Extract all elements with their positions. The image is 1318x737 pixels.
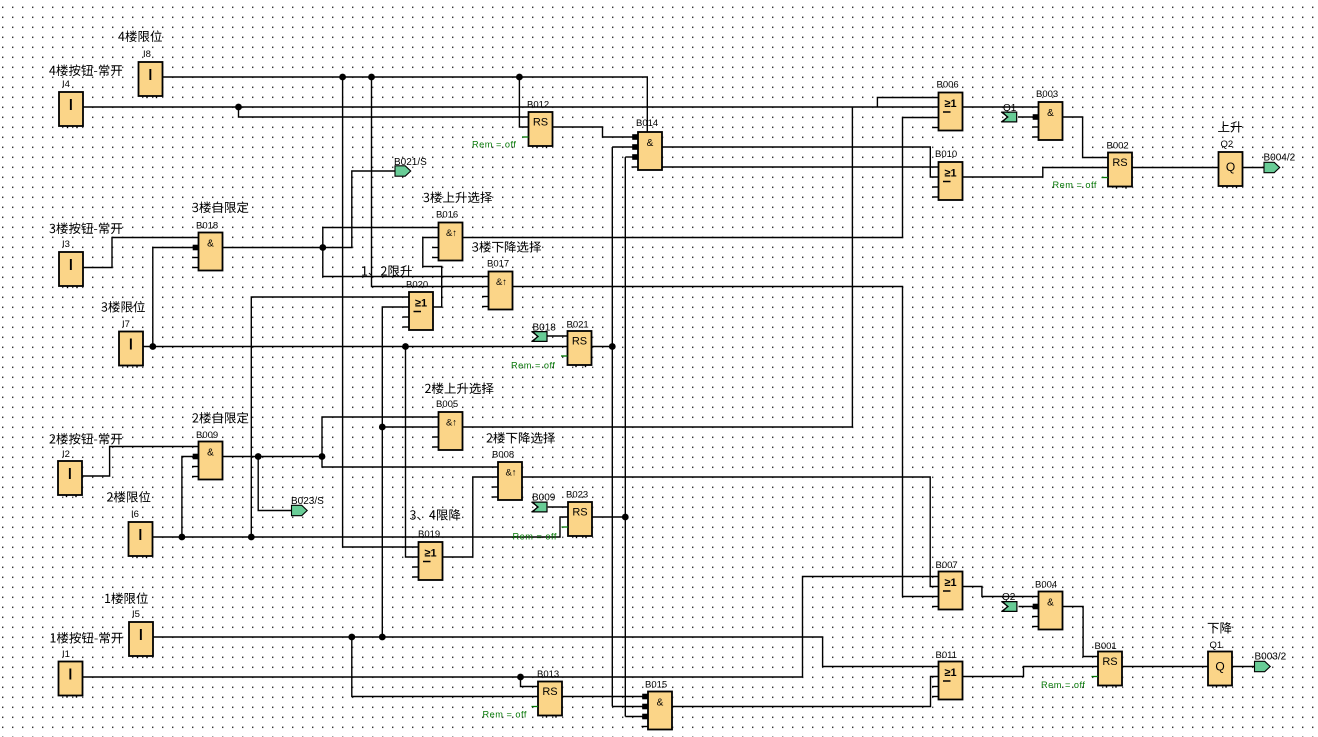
svg-text:≥1: ≥1 [944,98,956,110]
wire B012 output to B014 input 1 [553,127,639,137]
rs-latch B021 [561,331,592,367]
wire net I6 (2nd floor limit) to B023.R [153,517,569,537]
label Q1 [1210,640,1223,651]
junction B018 output [319,244,326,251]
svg-text:I7: I7 [122,319,130,330]
svg-text:B009: B009 [196,430,218,441]
wire B009 branch to connector B023/S [258,457,291,511]
label 1st floor button [51,632,123,644]
svg-text:RS: RS [1112,157,1127,169]
svg-text:B011: B011 [936,650,957,661]
input I3 [59,252,83,288]
label B012 [527,100,549,111]
rs-latch B002 [1102,153,1133,189]
wire B020 output to B016 input 2 [423,238,442,308]
svg-text:B007: B007 [936,560,958,571]
label Rem B001 [1041,680,1085,690]
wire net I8 (4th floor limit) to B012.R / B017 / B019 / B010 [163,77,939,167]
junction I7/B019 [402,343,409,350]
label B016 [436,210,458,221]
label 4th floor limit [118,30,162,42]
wire into B014 input 2 [612,146,638,148]
connector in Q1 [1001,112,1017,122]
label B011 [936,650,957,661]
junction I5 riser [379,634,386,641]
label B006 [937,80,959,91]
label 2F self-limit [193,412,249,424]
svg-text:&↑: &↑ [496,277,507,288]
svg-text:RS: RS [572,507,587,519]
wire B009 output [223,456,322,458]
svg-text:&: & [207,448,214,459]
output Q1 [1208,652,1232,688]
wire B016 output to B006 input 3 [463,118,939,238]
wire B008 output to B007 input 2 [522,477,939,587]
and-gate B004 [1032,592,1063,630]
connector out B021/S [395,166,411,176]
label B014 [636,118,658,129]
svg-text:I1: I1 [62,649,70,660]
input I5 [129,622,153,658]
wire B011 output to B001.R [963,667,1099,677]
connector out B004/2 [1264,162,1280,172]
label B010 [935,149,957,160]
svg-text:I2: I2 [62,449,70,460]
svg-text:&: & [657,698,664,709]
wire I7 branch up to B018 input 2 [153,248,199,347]
connector out B023/S [292,505,308,515]
wire I7 branch down to B019 input 2 [406,347,419,558]
svg-text:I6: I6 [131,509,139,520]
svg-text:Q2: Q2 [1002,592,1016,603]
label 3F self-limit [192,201,248,213]
svg-text:RS: RS [533,117,548,129]
svg-text:Rem = off: Rem = off [1053,180,1097,190]
svg-text:&: & [1047,598,1054,609]
wire B015 output to B011 input 2 [672,677,939,707]
label I5 [132,609,140,620]
wire B013 output to B015 input 1 [562,696,648,698]
wire I8 branch down to B017 input 2 [372,77,489,287]
label Rem B023 [513,532,557,542]
label B004/2 [1264,153,1296,164]
wire I5 branch to B013.R [352,637,538,697]
svg-text:B017: B017 [487,259,509,270]
svg-text:B004: B004 [1035,580,1057,591]
wire I3 to B018 input 1 [83,238,199,268]
svg-text:≥1: ≥1 [424,548,436,560]
label B018 [196,221,218,232]
svg-text:Rem = off: Rem = off [511,361,555,371]
junction I8/B019 [339,74,346,81]
wire vertical B023 net [624,157,626,717]
svg-text:B023: B023 [566,490,588,501]
label B017 [487,259,509,270]
wire vertical B021 net [611,147,613,707]
label I8 [143,49,151,60]
wire B010 output to B002.R [963,168,1109,178]
wire B003 output to B002.S [1063,117,1109,158]
wire branch up into B006 input 1 [877,98,938,108]
svg-text:B015: B015 [645,680,667,691]
svg-text:B013: B013 [537,669,559,680]
wire B004 output to B001.S [1063,607,1099,657]
wire I5 riser to B020.2 and B005.2 [382,307,409,637]
input I4 [59,92,83,128]
connector in B009 [531,502,547,512]
svg-text:B021/S: B021/S [394,157,427,168]
wire B021 output to B014.2 and B015.2 [592,346,613,348]
label 3-4 limit down [410,509,461,521]
svg-text:≥1: ≥1 [944,577,956,589]
svg-text:I8: I8 [143,49,151,60]
label B015 [645,680,667,691]
or-gate B019 [412,542,443,580]
wire connector Q1 to B003 input 2 [1018,116,1039,118]
wire I8 branch down to B019 input 1 [343,77,419,547]
svg-text:I3: I3 [62,239,70,250]
label B008 [492,450,514,461]
label B023/S [291,496,324,507]
svg-text:Rem = off: Rem = off [472,140,516,150]
svg-text:Q2: Q2 [1221,139,1234,150]
junction I7 output [149,343,156,350]
wire into B015 input 2 [612,706,648,708]
label I6 [131,509,139,520]
junction I4/B012.S [235,104,242,111]
svg-text:Q1: Q1 [1003,103,1017,114]
svg-text:≥1: ≥1 [944,667,956,679]
wire I6 branch up to B020 input 1 [251,297,409,537]
and-gate B003 [1032,102,1063,140]
svg-text:&↑: &↑ [446,418,457,429]
wire net I4 (4th floor button) to B006 inputs [83,106,939,108]
svg-text:B020: B020 [406,280,428,291]
svg-text:B004/2: B004/2 [1264,153,1296,164]
wire B018 output to connector B021/S [223,171,395,248]
rs-latch B001 [1092,652,1123,688]
connector in Q2 [1001,601,1017,611]
wire net I5 (1st floor limit) to B011 input 1 [153,637,939,667]
svg-text:B001: B001 [1095,641,1117,652]
label Rem B002 [1053,180,1097,190]
svg-text:Rem = off: Rem = off [1041,680,1085,690]
edge-and B008 [492,462,523,500]
wire I6 branch up to B009 input 2 [182,457,199,538]
wire B002 output to Q2 [1132,167,1219,169]
and-gate B014 [632,132,663,170]
or-gate B010 [932,162,963,200]
label 3rd floor button [49,222,122,234]
label B020 [406,280,428,291]
or-gate B006 [932,93,963,131]
or-gate B007 [932,572,963,610]
label 3F down select [472,241,541,253]
svg-text:I5: I5 [132,609,140,620]
svg-text:RS: RS [572,336,587,348]
junction B023 output [622,514,629,521]
label 2nd floor limit [107,491,150,503]
label B021 [567,320,589,331]
connector in B018 [531,331,547,341]
label B009 [196,430,218,441]
wire Q1 to connector B003/2 [1232,666,1255,668]
label 2F down select [487,432,556,444]
wire B009 branch to B005.1 and B008.1 [322,417,498,467]
junction I6/B009 [179,534,186,541]
wire Q2 to connector B004/2 [1243,167,1265,169]
svg-text:B019: B019 [418,529,440,540]
junction B009/B023S [255,453,262,460]
svg-text:B012: B012 [527,100,549,111]
wire connector B018 to B021.S [546,335,568,337]
junction I8/B017 [368,74,375,81]
label Rem B013 [483,710,527,720]
label B023 [566,490,588,501]
label I4 [62,79,70,90]
svg-text:B014: B014 [636,118,658,129]
wire B023 output to B014.3 and B015.3 [592,516,625,518]
edge-and B017 [482,272,513,310]
svg-text:B009: B009 [532,493,556,504]
wire B019 output to B008 input 2 [443,477,499,557]
svg-text:Rem = off: Rem = off [483,710,527,720]
wire connector B009 to B023.S [548,506,568,508]
svg-text:B003/2: B003/2 [1255,652,1287,663]
label 2F up select [425,383,494,395]
svg-text:Q: Q [1215,660,1224,674]
svg-text:B018: B018 [196,221,218,232]
svg-text:B003: B003 [1036,89,1058,100]
label Q2 [1221,139,1234,150]
wire connector Q2 to B004 input 2 [1019,606,1039,608]
label B019 [418,529,440,540]
rs-latch B023 [562,502,593,538]
wire into B014 input 3 [625,156,638,158]
wire into B005 input 2 [382,426,438,428]
wire I4 step down to B012.S [239,107,529,117]
junction B009 output corner [319,453,326,460]
junction B021 output [609,343,616,350]
svg-text:Rem = off: Rem = off [513,532,557,542]
and-gate B015 [642,692,673,730]
svg-text:&: & [1047,108,1054,119]
input I2 [58,461,82,497]
label B003/2 [1255,652,1287,663]
svg-text:B002: B002 [1107,141,1129,152]
label up [1218,121,1242,132]
svg-text:B016: B016 [436,210,458,221]
junction I1/B013 [517,674,524,681]
rs-latch B012 [522,112,553,148]
label Rem B021 [511,361,555,371]
wire B007 output to B004 input 1 [963,587,1039,597]
svg-text:B010: B010 [935,149,957,160]
label B013 [537,669,559,680]
wire B018 output branch to B016.1 and B017.1 [323,228,489,277]
svg-text:≥1: ≥1 [944,168,956,180]
label 2nd floor button [50,433,123,445]
wire net I7 (3rd floor limit) to B021.R [143,346,568,348]
svg-text:&: & [647,138,654,149]
junction I8/B012 [516,74,523,81]
label conn Q2 [1002,592,1016,603]
label conn B018 [533,323,557,334]
label conn B009 [532,493,556,504]
label Rem B012 [472,140,516,150]
label B007 [936,560,958,571]
label 1-2 limit up [362,265,412,276]
label B001 [1095,641,1117,652]
svg-text:≥1: ≥1 [415,298,427,310]
wire I1 branch to B013.S [521,677,539,687]
label I7 [122,319,130,330]
svg-text:&↑: &↑ [446,228,457,239]
input I8 [139,62,163,98]
wire B001 output to Q1 [1122,666,1208,668]
junction I5/B013 [348,634,355,641]
label B005 [436,399,458,410]
label B021/S [394,157,427,168]
edge-and B016 [432,223,463,261]
label 4th floor button [49,64,122,76]
svg-text:&: & [207,239,214,250]
label 1st floor limit [105,592,148,604]
svg-text:I4: I4 [62,79,70,90]
wire B017 output to B007 input 3 [513,287,939,597]
svg-text:B008: B008 [492,450,514,461]
label I1 [62,649,70,660]
wire B014 output to B010 input 2 [662,147,939,177]
input I6 [129,522,153,558]
svg-text:B005: B005 [436,399,458,410]
svg-text:Q1: Q1 [1210,640,1223,651]
label I2 [62,449,70,460]
wire I8 branch down to B012.R [519,77,528,127]
svg-text:B006: B006 [937,80,959,91]
junction I6/B020 [248,534,255,541]
svg-text:RS: RS [542,686,557,698]
label B003 [1036,89,1058,100]
wire into B015 input 3 [625,716,648,718]
label B002 [1107,141,1129,152]
label B004 [1035,580,1057,591]
label 3F up select [423,192,492,204]
svg-text:B021: B021 [567,320,589,331]
and-gate B018 [192,233,223,271]
connector out B003/2 [1255,661,1271,671]
svg-text:B018: B018 [533,323,557,334]
wire net I2 (2nd floor button) to B009 input 1 [82,447,199,477]
output Q2 [1219,152,1243,188]
svg-text:Q: Q [1226,160,1235,174]
svg-text:B023/S: B023/S [291,496,324,507]
svg-text:RS: RS [1102,656,1117,668]
or-gate B020 [403,292,434,330]
label down [1208,622,1232,634]
label I3 [62,239,70,250]
label 3rd floor limit [101,301,144,313]
input I7 [119,332,143,368]
junction I5/B005 [379,424,386,431]
wire B006 output to B003 input 1 [963,106,1039,108]
edge-and B005 [432,412,463,450]
wire B005 output joining B006 feed [463,107,853,427]
svg-text:&↑: &↑ [505,468,516,479]
input I1 [59,662,83,698]
and-gate B009 [192,442,223,480]
rs-latch B013 [532,682,563,718]
label conn Q1 [1003,103,1017,114]
wire net I1 (1st floor button) to B007 input 1 [83,577,939,678]
or-gate B011 [932,662,963,700]
